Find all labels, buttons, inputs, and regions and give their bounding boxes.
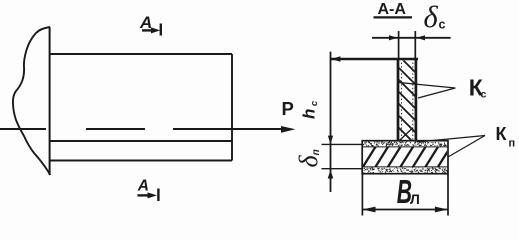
svg-text:п: п [509, 138, 516, 150]
svg-text:А-А: А-А [378, 1, 407, 18]
svg-text:с: с [481, 89, 487, 101]
svg-text:А: А [137, 178, 149, 195]
svg-text:δ: δ [424, 0, 439, 34]
svg-text:P: P [282, 98, 294, 119]
svg-text:А: А [139, 13, 152, 32]
svg-text:Л: Л [410, 191, 420, 207]
svg-text:К: К [496, 124, 508, 144]
svg-text:с: с [439, 17, 446, 31]
